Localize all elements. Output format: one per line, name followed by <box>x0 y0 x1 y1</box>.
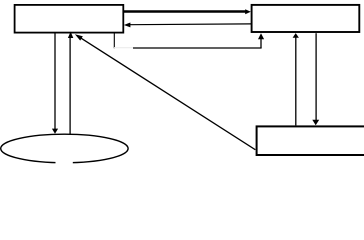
wire faint segment of connector <box>114 47 133 49</box>
wire connector vertical up into right box <box>258 33 264 48</box>
wire up arrow (ellipse to left box), right line <box>68 32 73 135</box>
gap in ellipse bottom <box>56 158 73 165</box>
wire thin arrow back (right box to left box) <box>124 23 251 28</box>
wire thick arrow top (left box to right box) <box>124 9 251 14</box>
wire up arrow (bottom-right box to top-right box) <box>293 33 299 125</box>
wire down arrow (top-right box to bottom-right box) <box>312 33 319 125</box>
block bottom-right (clipped at right edge) <box>257 126 364 155</box>
wire connector stub down from left box <box>113 33 115 48</box>
wire down arrow (left box to ellipse), left line <box>52 33 58 133</box>
wire connector horizontal <box>133 47 262 49</box>
block top-right <box>252 5 360 32</box>
wire diagonal arrow (bottom-right box to left box) <box>75 34 255 150</box>
ellipse bottom-left <box>1 134 128 163</box>
block top-left <box>15 5 124 33</box>
